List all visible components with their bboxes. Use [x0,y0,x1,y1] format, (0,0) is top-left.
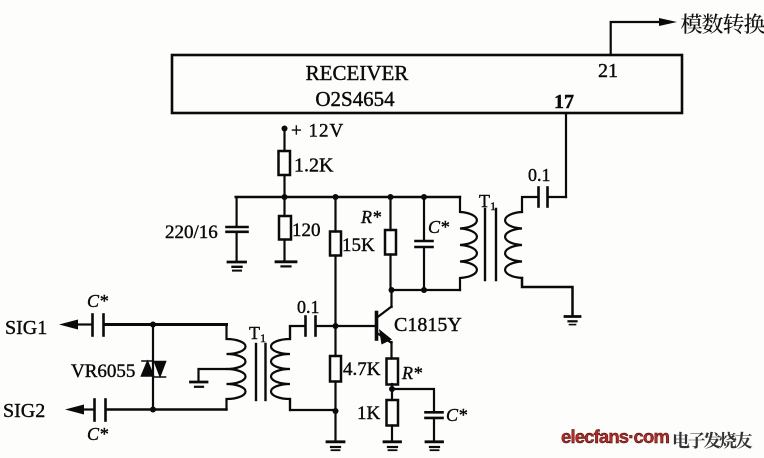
ground below 4.7K [327,442,344,450]
resistor R 1.2K [279,129,291,198]
wire secondary bottom to ground [522,278,573,315]
svg-text:R*: R* [360,207,381,227]
capacitor C* SIG1 [79,315,104,336]
node junction dot SIG1/VR [150,322,156,328]
capacitor 220/16 electrolytic [227,197,248,261]
svg-text:1K: 1K [357,403,381,424]
svg-text:R*: R* [401,363,422,383]
ground below 1K [384,442,401,450]
logo text 电 [674,432,690,448]
node junction dot emitter/R* bottom [389,386,395,392]
svg-text:4.7K: 4.7K [343,359,381,380]
wire secondary top to 0.1 cap [522,197,538,212]
capacitor C* lower [426,412,443,441]
node junction dot node/collector [389,287,395,293]
wire T2 primary bottom to ground node [290,399,336,410]
svg-text:elecfans·com: elecfans·com [561,426,669,447]
capacitor C* upper [416,197,433,290]
svg-text:0.1: 0.1 [297,297,320,317]
svg-text:VR6055: VR6055 [71,361,135,382]
wire T2 center tap [199,369,227,381]
logo text 友 [735,432,752,449]
arrowhead to ADC output [659,18,677,26]
ground below 220/16 [228,262,246,271]
svg-text:21: 21 [598,60,618,82]
svg-text:RECEIVER: RECEIVER [306,61,409,85]
wire R* bottom to C* lower [392,389,434,411]
svg-text:220/16: 220/16 [165,222,218,243]
capacitor 0.1 coupling lower [290,317,316,336]
resistor R* lower (emitter) [387,359,399,401]
resistor R 15K [330,197,341,326]
transistor Q1 C1815Y [377,290,393,359]
transformer T1 upper secondary winding [505,212,522,278]
svg-text:SIG1: SIG1 [5,317,47,339]
transformer T2 lower primary winding (right) [271,327,290,411]
resistor R 4.7K [330,326,341,411]
svg-text:0.1: 0.1 [528,165,551,185]
wire pin 21 to ADC arrow [611,22,661,54]
node +12V terminal dot [282,126,288,132]
wire 4.7K node to ground [334,411,336,441]
node junction dot bus/15K [333,194,339,200]
capacitor 0.1 coupling upper [539,188,567,207]
node junction dot bus/C* [421,194,427,200]
wire bus +12V rail y=197 [236,196,460,198]
svg-text:120: 120 [292,220,321,241]
svg-text:17: 17 [554,91,574,113]
arrowhead SIG1 [59,320,78,330]
ground below T1 secondary [565,317,580,325]
ground below 120 [276,262,296,267]
node junction dot node/C* [421,287,427,293]
logo text 发 [704,432,721,449]
wire collector node line y=290 [392,289,461,291]
transformer T2 lower core [256,344,266,400]
svg-text:+ 12V: + 12V [291,121,344,142]
svg-text:1.2K: 1.2K [294,155,334,177]
resistor R 1K [387,400,399,441]
wire SIG1 line (thick) [105,323,227,326]
ground center tap [191,382,208,387]
node junction dot base/15K [333,323,339,329]
node junction dot bus/R* [388,194,394,200]
text 数 [702,14,723,34]
text 模 [681,14,702,34]
transformer T1 upper core [485,209,496,280]
arrowhead SIG2 [65,405,84,415]
wire T2 primary top to 0.1 cap [289,327,291,340]
node junction dot 4.7K/T1 return [333,408,339,414]
svg-text:C1815Y: C1815Y [394,314,462,336]
logo text 烧 [719,432,736,449]
capacitor C* SIG2 [85,400,106,421]
ground below C* lower [426,442,443,450]
svg-text:C*: C* [428,217,449,237]
diode pair VR6055 [142,361,166,377]
wire base line [317,325,376,327]
svg-text:C*: C* [87,291,108,311]
node junction dot bus/1.2K [282,194,288,200]
wire pin 17 vertical [565,114,567,197]
resistor R* upper [385,197,396,290]
logo text 子 [688,432,705,448]
transformer T1 upper primary winding [460,197,477,290]
wire SIG2 line [107,408,227,410]
text 换 [744,13,764,34]
node junction dot SIG2/VR [150,407,156,413]
resistor R 120 [279,197,291,261]
svg-text:O2S4654: O2S4654 [315,87,395,111]
svg-text:SIG2: SIG2 [3,400,45,422]
svg-text:C*: C* [446,405,467,425]
IC U1 RECEIVER O2S4654 box [172,55,682,113]
svg-text:C*: C* [87,424,108,444]
wire VR6055 vertical [152,325,154,410]
text 转 [723,13,743,33]
svg-text:15K: 15K [342,235,375,256]
transformer T2 lower secondary winding (left) [227,325,246,410]
